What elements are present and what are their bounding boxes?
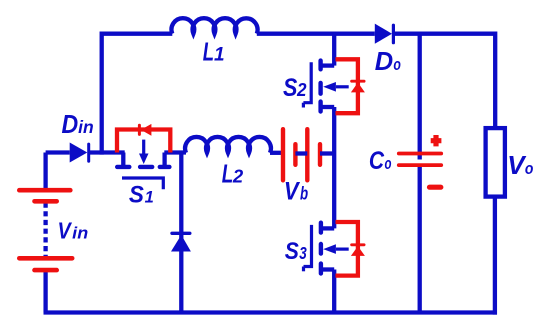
S2 channel dashes — [318, 61, 322, 112]
inductor L1 — [172, 18, 258, 34]
wire top rail right with corner down to Vo — [395, 34, 495, 127]
S3 gate bar with hook — [304, 225, 312, 267]
S1 red diode symbol — [139, 124, 151, 136]
S2 red diode symbol — [351, 81, 365, 92]
diode Do — [375, 24, 394, 44]
S1 body arrow — [142, 140, 145, 154]
wire Vin bottom vertical — [43, 272, 47, 313]
S1 arrowhead — [139, 154, 149, 165]
battery Vin — [19, 190, 72, 270]
S2 drain stub — [321, 63, 335, 67]
S1 drain leg — [121, 153, 125, 166]
capacitor Co plates (red) — [399, 154, 441, 166]
transistor S3 (MOSFET, vertical) — [304, 223, 349, 274]
wire mid rail: top rail to S2 drain — [332, 34, 336, 66]
S3 gate hook tick — [302, 267, 305, 272]
svg-text:S1: S1 — [129, 182, 154, 209]
wire freewheeling diode branch vertical — [179, 153, 183, 313]
S2 body arrow line — [336, 85, 349, 88]
S3 drain stub — [321, 226, 334, 230]
battery Vb — [283, 129, 320, 180]
S1 anti-parallel diode (red) — [117, 130, 170, 153]
wire mid rail: S2 source to S3 drain — [332, 107, 336, 228]
wire Vb to mid rail — [320, 151, 334, 155]
svg-text:Do: Do — [375, 48, 401, 76]
S3 anti-parallel diode loop (red) — [336, 222, 358, 276]
wire mid rail: S3 source to bottom rail — [332, 270, 336, 313]
wire top rail middle — [257, 32, 375, 36]
S2 gate bar with hook — [303, 62, 311, 102]
Co plus sign — [431, 135, 442, 146]
S3 arrowhead — [323, 244, 336, 254]
S3 source stub — [321, 267, 334, 271]
svg-text:Vb: Vb — [284, 177, 308, 205]
wire bottom rail — [44, 310, 498, 314]
svg-text:Co: Co — [369, 147, 392, 175]
wire L2 to Vb battery — [270, 151, 281, 155]
diode freewheel (blue, below L2 node) — [171, 233, 191, 251]
S1 channel dashes — [117, 165, 169, 169]
S3 red diode symbol — [351, 245, 365, 256]
svg-text:Vin: Vin — [58, 218, 89, 244]
wire Din cathode to S1 drain — [89, 150, 125, 154]
wire Vb inner segment — [295, 151, 307, 155]
wire Vin dashed (cells continuation) — [43, 203, 47, 258]
S2 source stub — [321, 105, 335, 109]
wire Co branch vertical lower — [418, 164, 422, 313]
wire Co branch vertical upper — [418, 34, 422, 160]
wire from Vin to Din anode — [46, 150, 70, 154]
S1 gate bar with hook — [122, 178, 163, 189]
resistor Vo (load rectangle) — [486, 128, 505, 197]
wire Vin top vertical — [43, 153, 47, 189]
S3 body arrow line — [336, 248, 349, 251]
svg-text:Vo: Vo — [507, 150, 533, 180]
S2 gate hook tick — [302, 103, 305, 108]
wire S1 source to L2 — [164, 150, 186, 154]
wire Vo branch below resistor — [493, 198, 497, 314]
svg-text:L2: L2 — [222, 161, 244, 189]
svg-text:S3: S3 — [285, 238, 307, 265]
svg-text:Din: Din — [62, 109, 94, 139]
S2 arrowhead — [323, 82, 336, 92]
transistor S2 (MOSFET, vertical) — [303, 61, 348, 112]
svg-text:S2: S2 — [283, 74, 307, 102]
inductor L2 — [185, 137, 271, 153]
Co minus sign — [430, 185, 441, 190]
S2 anti-parallel diode loop (red) — [336, 59, 358, 113]
transistor S1 (MOSFET, horizontal) — [117, 140, 169, 190]
wire top rail left — [102, 34, 173, 155]
S1 source leg — [162, 153, 166, 166]
svg-text:L1: L1 — [203, 36, 225, 66]
S3 channel dashes — [319, 223, 323, 274]
diode Din — [70, 143, 89, 163]
